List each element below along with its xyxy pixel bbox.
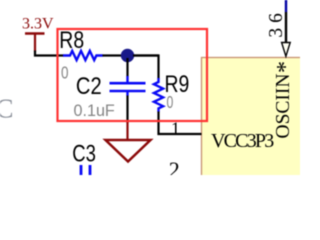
svg-text:2: 2 bbox=[169, 157, 180, 175]
wire (junction right and down to R9) bbox=[133, 56, 159, 79]
power symbol stem bbox=[34, 34, 36, 52]
ground bbox=[106, 140, 151, 162]
power symbol 3.3V bar bbox=[25, 32, 45, 35]
svg-text:C3: C3 bbox=[72, 140, 96, 167]
wire (vertical into pin 36) bbox=[285, 12, 287, 43]
svg-text:*: * bbox=[273, 61, 299, 73]
svg-text:C: C bbox=[0, 94, 14, 124]
svg-text:36: 36 bbox=[266, 8, 287, 38]
svg-text:0: 0 bbox=[167, 93, 174, 113]
capacitor C2 bbox=[110, 76, 146, 96]
wire (power to R8) bbox=[35, 51, 64, 56]
wire (junction down to C2) bbox=[126, 58, 128, 77]
resistor R8 bbox=[63, 51, 103, 60]
wire (R9 to pin 1) bbox=[159, 112, 202, 135]
resistor R9 bbox=[154, 78, 163, 112]
svg-text:C2: C2 bbox=[76, 72, 102, 99]
svg-text:OSCIIN: OSCIIN bbox=[273, 73, 294, 138]
wire (net to pin 36, blue segment at top) bbox=[285, 0, 287, 12]
wire (C2 to ground) bbox=[126, 96, 128, 124]
svg-text:3.3V: 3.3V bbox=[22, 15, 54, 32]
wire (R8 to junction to R9) bbox=[103, 54, 159, 56]
svg-text:VCC3P3: VCC3P3 bbox=[211, 130, 274, 152]
pin 36 open arrow bbox=[282, 43, 291, 57]
IC U1 (yellow block) bbox=[202, 58, 312, 188]
svg-text:0.1uF: 0.1uF bbox=[74, 100, 115, 119]
ground stem bbox=[126, 121, 128, 140]
junction dot bbox=[121, 49, 134, 62]
svg-text:0: 0 bbox=[61, 64, 69, 83]
capacitor C3 bbox=[81, 165, 90, 176]
selection box bbox=[58, 29, 208, 121]
